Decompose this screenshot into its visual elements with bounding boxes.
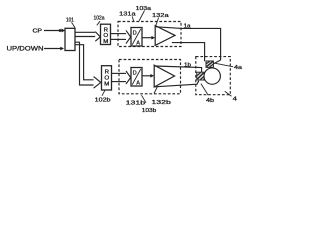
- counter 101: [65, 28, 75, 50]
- node UP/DOWN: [7, 46, 44, 53]
- leader 103a: [139, 11, 145, 22]
- wire 1a: [156, 27, 221, 64]
- label 103b: [142, 108, 157, 114]
- leader 101: [72, 22, 76, 27]
- svg-text:102b: 102b: [95, 97, 111, 103]
- dashed box 103a: [118, 22, 181, 47]
- leader 131b: [142, 95, 147, 103]
- svg-text:4a: 4a: [234, 65, 243, 71]
- wire 1b lower: [155, 81, 199, 87]
- label 1a: [184, 24, 191, 30]
- leader 102a: [97, 21, 100, 25]
- leader 4a: [215, 63, 233, 67]
- DAC 131b: [131, 68, 142, 87]
- label 101: [66, 17, 74, 23]
- label 132b: [151, 100, 171, 106]
- label 131a: [119, 12, 136, 18]
- arrow 131a to 132a: [142, 36, 155, 40]
- svg-text:102a: 102a: [94, 16, 105, 22]
- arrow 131b to 132b: [142, 74, 154, 78]
- svg-text:M: M: [103, 39, 108, 45]
- label 131b: [126, 101, 146, 107]
- label 102b: [95, 97, 111, 103]
- svg-text:4: 4: [233, 97, 237, 103]
- rotor circle: [204, 68, 220, 84]
- node CP: [33, 29, 43, 35]
- svg-text:132b: 132b: [151, 100, 171, 106]
- svg-text:1b: 1b: [184, 63, 191, 69]
- leader 132b: [154, 87, 158, 94]
- wire CP input: [44, 29, 65, 33]
- ROM 102a: [101, 24, 111, 44]
- svg-text:131a: 131a: [119, 12, 136, 18]
- op-amp 132a: [155, 26, 175, 46]
- svg-text:D: D: [133, 71, 137, 77]
- leader 4b: [201, 84, 208, 96]
- label 4: [233, 97, 237, 103]
- label 4a: [234, 65, 243, 71]
- svg-text:A: A: [136, 80, 140, 86]
- svg-text:D: D: [133, 31, 137, 37]
- ROM 102b: [102, 66, 112, 90]
- svg-text:CP: CP: [33, 29, 43, 35]
- leader 132a: [156, 18, 159, 26]
- coil 4b: [197, 72, 204, 80]
- bus 101 to 102a: [75, 32, 100, 42]
- svg-text:132a: 132a: [152, 13, 170, 19]
- wire UP/DOWN input: [44, 47, 64, 51]
- bus 101 to 102b: [75, 42, 101, 88]
- svg-text:4b: 4b: [206, 98, 214, 104]
- label 103a: [136, 6, 152, 12]
- leader 4: [225, 91, 232, 96]
- svg-text:UP/DOWN: UP/DOWN: [7, 46, 44, 53]
- coil 4a: [206, 61, 213, 67]
- bus 102a to 131a: [111, 30, 131, 43]
- svg-text:A: A: [136, 40, 140, 46]
- leader 131a: [132, 16, 134, 21]
- svg-text:131b: 131b: [126, 101, 146, 107]
- svg-text:1a: 1a: [184, 24, 191, 30]
- dashed box 103b: [119, 60, 181, 94]
- motor dashed box 4: [196, 57, 231, 95]
- wire from 132a lower: [172, 43, 205, 62]
- label 1b: [184, 63, 191, 69]
- svg-text:101: 101: [66, 17, 74, 23]
- label 132a: [152, 13, 170, 19]
- op-amp 132b: [154, 65, 174, 87]
- bus 102b to 131b: [112, 71, 131, 84]
- DAC 131a: [131, 28, 142, 47]
- label 4b: [206, 98, 214, 104]
- svg-text:M: M: [104, 82, 109, 88]
- wire 1b upper: [155, 66, 202, 72]
- leader 102b: [102, 90, 105, 96]
- label 102a: [94, 16, 105, 22]
- svg-text:103b: 103b: [142, 108, 157, 114]
